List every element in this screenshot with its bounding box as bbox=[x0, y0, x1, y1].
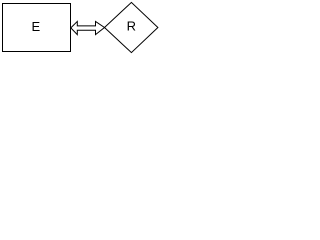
relationship diamond R bbox=[105, 2, 158, 52]
double arrow bbox=[71, 21, 105, 34]
entity E box bbox=[3, 4, 71, 52]
svg-text:E: E bbox=[31, 19, 40, 34]
svg-text:R: R bbox=[127, 19, 136, 34]
